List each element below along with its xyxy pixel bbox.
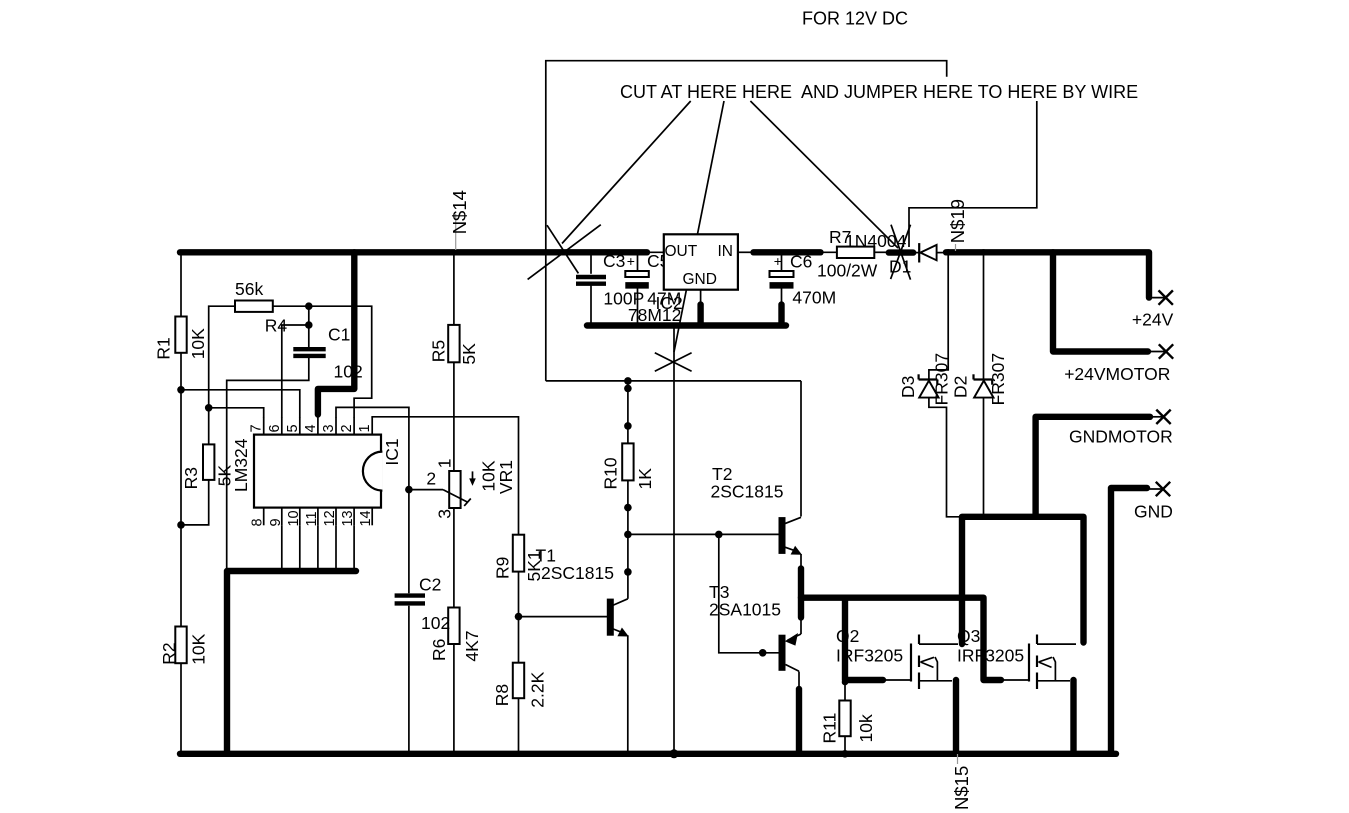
capacitor C6 470M electrolytic — [770, 271, 794, 277]
svg-text:Q2: Q2 — [836, 626, 859, 646]
wire T2 collector riser — [800, 381, 802, 517]
wire GND terminal riser — [1111, 488, 1147, 754]
terminal GNDMOTOR — [1150, 416, 1164, 418]
svg-text:5K: 5K — [459, 343, 479, 365]
svg-text:CUT AT HERE HERE AND JUMPER H: CUT AT HERE HERE AND JUMPER HERE TO HERE… — [620, 82, 1138, 102]
wire R3 bottom to R1 line — [181, 480, 209, 525]
pin 14 IC1 bottom — [371, 508, 373, 526]
resistor R7 100/2W — [837, 247, 874, 258]
cut mark X1 on bus — [547, 225, 578, 273]
svg-text:IC1: IC1 — [382, 438, 402, 465]
wire +12V top bus — [180, 249, 647, 255]
net stub N$19 — [955, 244, 957, 251]
resistor R11 10k — [839, 701, 850, 737]
regulator IC2 78M12 body — [664, 234, 738, 289]
pin 2 IC1 top — [353, 418, 355, 435]
capacitor C1 102 — [293, 347, 325, 351]
wire Q2 gate — [883, 679, 911, 681]
wires IC1 pins 9-13 to ground bus — [281, 525, 283, 571]
svg-text:+24VMOTOR: +24VMOTOR — [1064, 364, 1170, 384]
wire ground bottom bus — [180, 751, 1116, 757]
wire VR1 pin 3 to R6 — [453, 508, 455, 608]
wire R5 bottom to VR1 — [453, 362, 455, 471]
svg-text:102: 102 — [334, 362, 363, 382]
capacitor C5 47M electrolytic — [625, 271, 649, 277]
wire N$14 net horizontal to T2 collector — [546, 380, 801, 382]
wire T2/T3 emitter bar — [798, 569, 804, 618]
svg-text:1K: 1K — [635, 468, 655, 490]
resistor R1 10K — [175, 317, 186, 353]
wire 56k left lead to R3 — [209, 306, 235, 444]
wire IC1 pin 3 to C2 and VR1 wiper line — [336, 407, 409, 593]
pin 3 IC1 top — [335, 418, 337, 435]
svg-text:11: 11 — [304, 511, 320, 526]
svg-text:10k: 10k — [856, 714, 876, 742]
transistor T3 2SA1015 PNP — [779, 635, 786, 671]
wire C2 bottom to ground bus — [408, 606, 410, 754]
svg-text:R9: R9 — [493, 557, 513, 579]
svg-text:VR1: VR1 — [496, 460, 516, 494]
wire GNDMOTOR to drain bus — [1036, 417, 1150, 517]
svg-text:6: 6 — [267, 424, 283, 432]
wire C1 bottom to ground riser — [227, 358, 309, 571]
wire gate drive bus from T2/T3 emitters — [801, 598, 1001, 680]
pin 1 IC1 top — [371, 418, 373, 435]
wire T1/R10 node to T2 base — [628, 533, 779, 535]
svg-text:C2: C2 — [419, 575, 441, 595]
wire segment R7 to D1 (to be cut) — [889, 249, 913, 255]
wire +24VMOTOR branch — [1053, 252, 1148, 351]
svg-text:C3: C3 — [603, 251, 625, 271]
svg-text:9: 9 — [268, 518, 284, 526]
svg-text:2SC1815: 2SC1815 — [541, 563, 614, 583]
svg-text:FR307: FR307 — [932, 353, 952, 406]
pin 9 IC1 bottom — [281, 508, 283, 526]
svg-text:12: 12 — [322, 510, 338, 526]
terminal +24VMOTOR — [1148, 351, 1166, 353]
wire Q2 source drop — [953, 680, 959, 754]
svg-text:3: 3 — [321, 424, 337, 432]
wire IC1 pin 1 output to VR1 and R9 — [372, 417, 518, 535]
wire R1 R2 chain — [180, 252, 182, 316]
svg-text:D1: D1 — [889, 257, 911, 277]
wire Q2 gate branch — [845, 598, 883, 680]
svg-text:5K: 5K — [215, 464, 235, 486]
svg-text:C1: C1 — [328, 325, 350, 345]
svg-text:+24V: +24V — [1132, 310, 1174, 330]
svg-text:C6: C6 — [790, 251, 812, 271]
resistor R6 4K7 — [448, 608, 459, 645]
wire V+ drop to IC1 pin 4 — [318, 252, 354, 414]
svg-text:7: 7 — [249, 424, 265, 432]
svg-text:GND: GND — [683, 271, 717, 288]
capacitor C2 102 — [395, 593, 425, 597]
wire regulator GND bus — [587, 322, 786, 328]
wire ground riser under IC1 — [227, 571, 356, 754]
svg-text:4K7: 4K7 — [462, 630, 482, 661]
wire Q3 source drop — [1070, 680, 1076, 754]
svg-text:IRF3205: IRF3205 — [836, 646, 903, 666]
svg-text:N$15: N$15 — [951, 766, 972, 810]
pin 11 IC1 bottom — [317, 508, 319, 526]
wire R6 bottom to ground bus — [453, 644, 455, 754]
svg-text:R8: R8 — [492, 684, 512, 706]
svg-text:4: 4 — [303, 424, 319, 432]
wire regulator GND pin drop — [697, 305, 703, 323]
svg-text:GND: GND — [1134, 502, 1173, 522]
diode D3 FR307 — [919, 381, 938, 398]
svg-text:2SC1815: 2SC1815 — [711, 482, 784, 502]
pin 8 IC1 bottom — [263, 508, 265, 526]
net stub N$15 — [957, 754, 959, 764]
wire C3 leads — [590, 252, 592, 273]
net stub N$14 — [455, 214, 457, 250]
jumper leader line to D1 node — [909, 101, 1037, 247]
cut mark X3 on R7-D1 wire — [891, 225, 911, 280]
pin 7 IC1 top — [263, 418, 265, 435]
svg-text:1: 1 — [434, 459, 454, 469]
leader line to cut mark 3 — [750, 101, 898, 248]
wire node to T3 base — [719, 534, 779, 652]
svg-text:R10: R10 — [601, 457, 621, 489]
resistor R3 5K — [203, 444, 214, 480]
svg-text:102: 102 — [421, 613, 450, 633]
transistor Q3 IRF3205 MOSFET — [1028, 644, 1030, 682]
wire MOSFET drain bus with Q2/Q3 drain drops — [962, 517, 1084, 644]
wire D2 branch through diode — [983, 252, 985, 379]
resistor R4 56k — [235, 301, 273, 312]
pin 6 IC1 top — [281, 418, 283, 435]
wire N$19 bus to +24V terminal — [946, 252, 1149, 297]
wire T2 emitter link — [800, 554, 802, 570]
VR1 wiper diagonal — [443, 490, 468, 503]
svg-text:R5: R5 — [428, 340, 448, 362]
svg-text:10K: 10K — [188, 633, 208, 664]
wire R8 bottom to ground bus — [518, 698, 520, 754]
svg-text:FR307: FR307 — [988, 353, 1008, 406]
transistor T1 2SC1815 NPN — [607, 599, 614, 636]
pin 4 IC1 top — [317, 418, 319, 435]
wire regulator GND pin — [700, 290, 702, 306]
svg-text:10: 10 — [286, 510, 302, 526]
potentiometer VR1 10K body — [449, 471, 460, 508]
svg-text:5: 5 — [285, 424, 301, 432]
resistor R9 5K1 — [513, 535, 524, 572]
capacitor C3 100P — [576, 275, 606, 279]
wire C1 node to IC1 pin 2 — [309, 306, 372, 418]
wire C6 negative drop — [778, 305, 784, 323]
svg-text:2: 2 — [339, 424, 355, 432]
svg-text:10K: 10K — [188, 328, 208, 359]
wire T3 collector link — [798, 672, 800, 691]
wire R9 bottom to node — [518, 572, 520, 663]
svg-text:R11: R11 — [820, 713, 840, 744]
svg-text:56k: 56k — [235, 279, 263, 299]
svg-text:78M12: 78M12 — [628, 305, 682, 325]
svg-text:IN: IN — [718, 243, 734, 260]
pin 13 IC1 bottom — [353, 508, 355, 526]
wire C6 leads — [781, 252, 783, 271]
wire Q3 gate — [1001, 679, 1029, 681]
wire node to T1 base — [519, 616, 608, 618]
svg-text:3: 3 — [434, 509, 454, 519]
wire C1 top lead — [308, 306, 310, 347]
wire T3 emitter link — [800, 616, 802, 634]
pin 5 IC1 top — [299, 418, 301, 435]
wire D3 branch lower to drain bus — [929, 398, 963, 517]
svg-text:OUT: OUT — [665, 243, 698, 260]
svg-text:2: 2 — [426, 468, 436, 488]
wire C5 leads — [637, 252, 639, 271]
op-amp IC1 LM324 body — [254, 435, 381, 508]
pin 12 IC1 bottom — [335, 508, 337, 526]
diode D1 1N4004 — [918, 243, 920, 262]
wire T3 collector drop — [796, 689, 802, 754]
leader line to cut mark 1 — [562, 101, 691, 244]
svg-text:R3: R3 — [181, 467, 201, 489]
wire R10 top leads — [627, 381, 629, 444]
svg-text:D2: D2 — [951, 376, 971, 398]
wire regulator IN pin — [738, 251, 754, 253]
svg-text:R6: R6 — [429, 639, 449, 661]
wire 56k right to C1 node — [273, 305, 309, 307]
diode D2 FR307 — [974, 381, 993, 398]
svg-text:14: 14 — [358, 510, 374, 526]
VR1 adjust arrow — [472, 471, 474, 481]
svg-text:N$19: N$19 — [947, 199, 968, 243]
wire R3 node to IC1 pin 7 — [209, 408, 264, 418]
terminal +24V — [1149, 297, 1166, 299]
svg-text:R2: R2 — [159, 642, 179, 664]
svg-text:Q3: Q3 — [957, 626, 980, 646]
svg-text:100/2W: 100/2W — [817, 261, 878, 281]
svg-text:IRF3205: IRF3205 — [957, 646, 1024, 666]
cut mark X2 below regulator — [655, 353, 692, 371]
svg-text:+: + — [627, 253, 635, 269]
svg-text:1: 1 — [357, 424, 373, 432]
transistor T2 2SC1815 NPN — [779, 517, 786, 554]
resistor R2 10K — [175, 627, 186, 664]
resistor R5 5K — [448, 325, 459, 362]
wire R11 leads — [844, 680, 846, 701]
resistor R10 1K — [622, 443, 633, 480]
svg-text:N$14: N$14 — [449, 190, 470, 234]
svg-text:2.2K: 2.2K — [527, 671, 547, 707]
transistor Q2 IRF3205 MOSFET — [910, 644, 912, 682]
node junction dots — [305, 302, 313, 310]
svg-text:13: 13 — [340, 510, 356, 526]
svg-text:D3: D3 — [898, 376, 918, 398]
svg-text:470M: 470M — [792, 288, 836, 308]
svg-text:GNDMOTOR: GNDMOTOR — [1069, 427, 1173, 447]
wire regulator IN segment — [754, 249, 821, 255]
svg-text:R1: R1 — [154, 337, 174, 359]
svg-text:+: + — [774, 253, 782, 269]
wire regulator OUT pin — [645, 251, 664, 253]
svg-text:2SA1015: 2SA1015 — [709, 600, 781, 620]
wire R1-R2 node to IC1 pin 5 — [181, 390, 300, 418]
leader line to cut mark 2 — [674, 101, 724, 352]
wire R7 leads — [821, 251, 837, 253]
wire D3 branch upper — [929, 252, 948, 379]
wire regulator X2 ground line to bottom bus — [673, 326, 675, 754]
wire T1 emitter to ground bus — [627, 635, 629, 754]
wire R5 top to bus — [453, 252, 455, 325]
resistor R8 2.2K — [513, 663, 524, 699]
svg-text:1N4004: 1N4004 — [845, 231, 907, 251]
wire VR1 wiper to C2 line — [409, 489, 443, 491]
svg-text:R4: R4 — [265, 316, 288, 336]
svg-text:FOR 12V DC: FOR 12V DC — [802, 9, 908, 29]
terminal GND — [1147, 488, 1163, 490]
wire R10 bottom to T1 collector — [627, 480, 629, 598]
pin 10 IC1 bottom — [299, 508, 301, 526]
wire C1 node to IC1 pin 6 — [282, 325, 309, 418]
jumper loop wire annotation — [546, 61, 947, 381]
svg-text:8: 8 — [250, 518, 266, 526]
wire D1 leads — [911, 252, 919, 254]
